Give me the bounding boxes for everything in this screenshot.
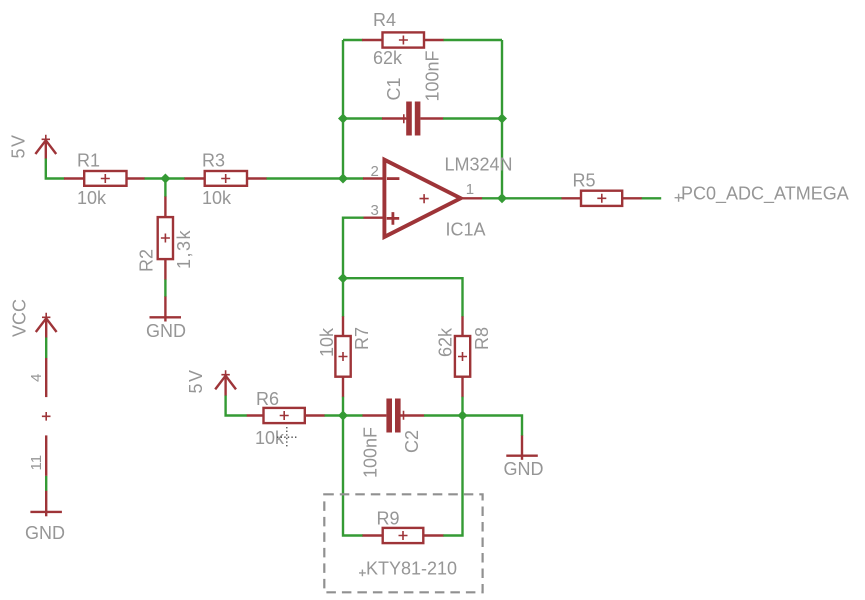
wire junction to R2	[164, 179, 166, 198]
wire node to GND bend	[463, 416, 523, 437]
wire pin11 to GND	[45, 476, 47, 491]
wire R8 to node	[461, 397, 463, 416]
svg-text:R4: R4	[373, 10, 396, 30]
svg-text:5V: 5V	[9, 133, 29, 158]
capacitor C2	[363, 399, 425, 433]
svg-text:100nF: 100nF	[423, 50, 443, 101]
svg-text:2: 2	[371, 163, 379, 180]
op-amp origin cross	[420, 194, 429, 203]
junction node C1 left	[338, 114, 348, 124]
ground GND under R2	[150, 297, 182, 322]
wire top row to R4	[343, 39, 363, 41]
junction node C2 left	[338, 411, 348, 421]
wire node to C2	[343, 414, 363, 416]
junction node pin2	[338, 174, 348, 184]
wire R1 to R3	[145, 177, 186, 179]
wire C1 right	[443, 117, 502, 119]
wire C1 left	[343, 117, 383, 119]
svg-text:C2: C2	[402, 430, 422, 453]
svg-text:62k: 62k	[436, 327, 456, 357]
svg-text:LM324N: LM324N	[445, 155, 513, 175]
junction node pin3 feedback	[338, 273, 348, 283]
svg-text:62k: 62k	[373, 48, 403, 68]
svg-text:1,3k: 1,3k	[174, 229, 194, 269]
wire R2 to GND	[164, 280, 166, 298]
wire R5 to net label	[642, 197, 662, 199]
svg-text:R5: R5	[573, 171, 596, 191]
op-amp U IC1A triangle	[384, 160, 460, 237]
junction node R2 top	[160, 174, 170, 184]
resistor R1	[64, 171, 145, 186]
wire VCC to pin4	[45, 338, 47, 359]
wire 5V to R6	[226, 396, 248, 416]
svg-text:R7: R7	[352, 327, 372, 350]
IC1 power origin cross	[42, 412, 51, 421]
mouse crosshair cursor	[277, 427, 297, 447]
svg-text:GND: GND	[504, 459, 544, 479]
svg-text:11: 11	[28, 455, 45, 471]
output wire pin1 to junction	[482, 197, 502, 199]
svg-text:R9: R9	[377, 509, 400, 529]
IC1 power pin 11	[45, 435, 47, 476]
resistor R6	[247, 408, 325, 423]
wire feedback left vertical	[342, 40, 344, 179]
svg-text:10k: 10k	[317, 327, 337, 357]
svg-text:VCC: VCC	[9, 299, 29, 337]
junction node output	[497, 193, 507, 203]
supply +5V P2 arrow	[215, 370, 236, 396]
junction node C1 right	[497, 114, 507, 124]
pin 2 lead	[363, 177, 384, 179]
wire R9 right up to node	[443, 416, 462, 536]
svg-text:100nF: 100nF	[361, 427, 381, 478]
capacitor C1	[382, 102, 443, 136]
IC1 power pin 4	[45, 358, 47, 397]
wire R7 to node	[342, 397, 344, 416]
ground GND rail	[30, 491, 62, 517]
svg-text:GND: GND	[146, 321, 186, 341]
resistor R2	[158, 197, 173, 280]
resistor R4	[362, 32, 444, 47]
wire node down to R7	[342, 278, 344, 317]
svg-text:5V: 5V	[186, 368, 206, 393]
wire feedback right vertical	[501, 40, 503, 198]
resistor R8	[455, 316, 470, 397]
svg-text:PC0_ADC_ATMEGA: PC0_ADC_ATMEGA	[681, 183, 849, 204]
svg-text:GND: GND	[25, 523, 65, 543]
svg-text:3: 3	[371, 202, 379, 219]
resistor R9	[363, 528, 444, 543]
wire R3 to opamp input node	[267, 177, 344, 179]
resistor R5	[562, 191, 643, 206]
svg-text:10k: 10k	[202, 188, 232, 208]
label origin cross KTY	[359, 570, 366, 577]
supply +5V P1 arrow	[35, 135, 56, 159]
pin 1 lead	[461, 197, 482, 199]
wire R6 to node	[325, 414, 344, 416]
supply VCC arrow	[36, 313, 57, 338]
ground GND right	[506, 436, 538, 460]
svg-text:C1: C1	[384, 77, 404, 100]
wire pin3 bend	[343, 218, 364, 279]
wire R4 to right vertical	[444, 39, 503, 41]
wire output to R5	[502, 197, 562, 199]
wire node to R8 column	[343, 278, 463, 317]
svg-text:KTY81-210: KTY81-210	[366, 559, 457, 579]
svg-text:R2: R2	[137, 249, 157, 272]
svg-text:10k: 10k	[77, 188, 107, 208]
KTY81-210 dashed enclosure	[324, 494, 482, 592]
wire left node down to R9	[343, 416, 363, 536]
svg-text:R3: R3	[202, 151, 225, 171]
op-amp inverting input marker	[387, 177, 400, 180]
svg-text:R6: R6	[256, 389, 279, 409]
svg-text:R8: R8	[472, 327, 492, 350]
op-amp non-inverting input marker	[387, 212, 400, 225]
svg-text:4: 4	[28, 374, 45, 382]
pin 3 lead	[363, 216, 384, 218]
resistor R3	[185, 171, 267, 186]
resistor R7	[335, 316, 350, 397]
wire C2 to node	[424, 414, 463, 416]
svg-text:10k: 10k	[255, 428, 285, 448]
svg-text:IC1A: IC1A	[446, 220, 486, 240]
svg-text:1: 1	[466, 181, 474, 198]
net label origin cross	[675, 194, 683, 202]
svg-text:R1: R1	[77, 151, 100, 171]
junction node C2 right	[458, 411, 468, 421]
wire node to pin2	[343, 177, 364, 179]
wire 5V to R1	[46, 159, 65, 179]
